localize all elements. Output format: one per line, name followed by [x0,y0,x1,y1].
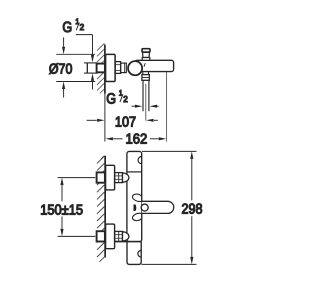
dimension \u00d870 [56,37,95,97]
screw arc top [138,157,142,164]
wall face line (front view) [104,156,106,258]
top connection: escutcheon [106,165,115,190]
joint tick on body [144,63,145,67]
dimension 162 [105,137,166,140]
main body bar (side view) [135,60,174,71]
hose outlet block [142,75,149,81]
svg-text:2: 2 [80,22,85,32]
label G1/2 mid [106,89,128,108]
bottom connection: nut [115,231,123,241]
bottom connection: square on wall [97,231,105,241]
diverter knob [142,49,150,61]
wall hatching (front view) [97,156,104,262]
body separator lines [127,171,142,173]
dimension 150+-15 [58,178,96,237]
G1/2 mid arrows [132,105,159,108]
svg-text:107: 107 [115,115,136,131]
valve body circle [128,61,142,75]
top connection: nut [115,173,123,183]
wall (side view) hatching [97,43,104,93]
spout ear bottom [132,213,141,220]
shower hose outlet neck [143,72,149,75]
svg-text:162: 162 [126,132,148,148]
spout (front view) [142,201,174,213]
mixer body (front view) [127,151,142,241]
extension line body end [166,72,168,142]
svg-text:150±15: 150±15 [40,203,83,219]
dimension 298 [190,151,193,264]
escutcheon (side view, \u00d870) [106,54,116,81]
leader G1/2 top [76,35,94,90]
black mark [134,204,137,211]
bottom connection: escutcheon [106,224,115,249]
union nut (side view) [115,62,126,74]
top connection: round end [123,173,129,182]
spout ear top [132,194,141,201]
svg-text:G: G [106,91,116,107]
pipe centre extension line [145,84,147,121]
svg-text:Ø70: Ø70 [49,61,73,77]
bottom connection: round end [123,232,129,241]
handle circle [141,204,148,211]
inlet nut on wall [97,64,105,73]
top connection: square on wall [97,172,105,182]
svg-text:G: G [62,20,72,36]
body lower section [127,242,141,265]
svg-text:2: 2 [123,94,128,104]
hose outlet pipe [143,80,149,111]
dimension 107 [87,119,158,122]
wall face extension line [104,94,106,142]
label G1/2 top [62,17,84,36]
wall face line (side view) [104,45,106,94]
G1/2 inlet pipe (left of wall) [84,63,98,73]
svg-text:298: 298 [182,201,203,217]
298 extension lines [142,150,197,152]
screw arc bottom [138,250,141,257]
